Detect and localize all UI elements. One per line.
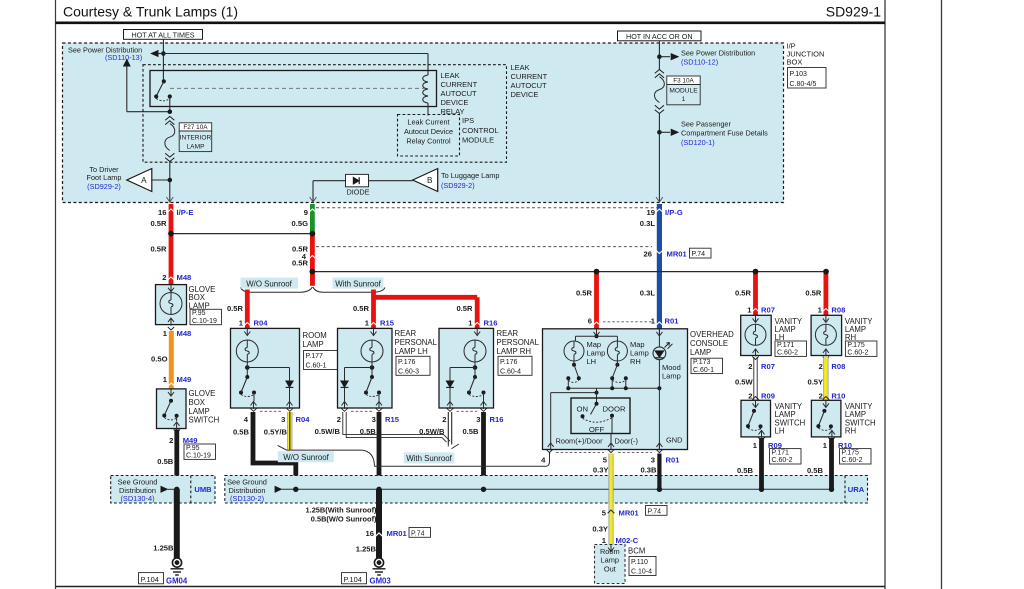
- svg-text:0.5W: 0.5W: [735, 378, 754, 387]
- svg-text:LAMP: LAMP: [189, 407, 210, 416]
- svg-text:0.5B: 0.5B: [233, 428, 250, 437]
- svg-text:LAMP: LAMP: [187, 143, 206, 150]
- svg-text:R04: R04: [296, 415, 311, 424]
- svg-text:R16: R16: [484, 318, 498, 327]
- svg-text:CONSOLE: CONSOLE: [690, 339, 728, 348]
- svg-text:P.103: P.103: [790, 71, 807, 78]
- svg-text:P.175: P.175: [847, 342, 864, 349]
- svg-text:0.5R: 0.5R: [456, 304, 473, 313]
- svg-text:C.60-2: C.60-2: [847, 350, 868, 357]
- svg-text:C.80-4/5: C.80-4/5: [790, 81, 817, 88]
- svg-text:0.5Y: 0.5Y: [807, 378, 823, 387]
- svg-text:R01: R01: [666, 455, 681, 464]
- svg-text:C.60-2: C.60-2: [777, 350, 798, 357]
- svg-text:P.95: P.95: [192, 310, 206, 317]
- svg-text:MR01: MR01: [619, 508, 640, 517]
- svg-text:DEVICE: DEVICE: [441, 98, 469, 107]
- svg-text:16: 16: [366, 529, 374, 538]
- svg-text:R08: R08: [831, 305, 845, 314]
- svg-text:See Passenger: See Passenger: [681, 120, 731, 129]
- svg-text:C.10-19: C.10-19: [192, 318, 217, 325]
- svg-text:LAMP: LAMP: [303, 340, 324, 349]
- svg-text:1: 1: [682, 96, 686, 103]
- svg-text:LAMP LH: LAMP LH: [395, 347, 428, 356]
- svg-text:C.60-1: C.60-1: [306, 363, 327, 370]
- svg-text:Door(-): Door(-): [615, 437, 638, 446]
- svg-text:3: 3: [281, 415, 285, 424]
- svg-text:CONTROL: CONTROL: [462, 126, 499, 135]
- svg-text:R09: R09: [761, 392, 775, 401]
- svg-text:19: 19: [647, 208, 655, 217]
- svg-text:R16: R16: [490, 415, 504, 424]
- svg-text:P.110: P.110: [631, 559, 648, 566]
- svg-text:P.173: P.173: [693, 359, 710, 366]
- svg-text:0.5R: 0.5R: [150, 219, 167, 228]
- svg-text:DEVICE: DEVICE: [511, 90, 539, 99]
- svg-text:(SD110-12): (SD110-12): [681, 57, 718, 66]
- svg-text:ON: ON: [577, 404, 589, 413]
- svg-text:PERSONAL: PERSONAL: [395, 338, 438, 347]
- svg-text:2: 2: [748, 392, 752, 401]
- svg-text:C.10-19: C.10-19: [186, 453, 211, 460]
- svg-text:GM03: GM03: [370, 577, 392, 586]
- svg-text:0.3L: 0.3L: [640, 289, 656, 298]
- svg-text:(SD130-2): (SD130-2): [230, 494, 264, 503]
- svg-text:W/O Sunroof: W/O Sunroof: [246, 279, 292, 288]
- svg-text:C.60-4: C.60-4: [500, 369, 521, 376]
- svg-text:UMB: UMB: [194, 485, 212, 494]
- svg-text:BOX: BOX: [189, 398, 206, 407]
- svg-text:P.171: P.171: [777, 342, 794, 349]
- svg-text:Out: Out: [604, 564, 616, 573]
- svg-text:3: 3: [476, 415, 480, 424]
- svg-text:0.5R: 0.5R: [292, 258, 309, 267]
- svg-text:(SD130-4): (SD130-4): [120, 494, 154, 503]
- svg-text:F3 10A: F3 10A: [673, 78, 694, 85]
- svg-text:9: 9: [304, 208, 308, 217]
- svg-text:(SD929-2): (SD929-2): [87, 182, 121, 191]
- svg-text:CURRENT: CURRENT: [511, 72, 548, 81]
- svg-text:0.5R: 0.5R: [735, 289, 752, 298]
- svg-text:(SD929-2): (SD929-2): [441, 181, 475, 190]
- svg-text:0.5Y/B: 0.5Y/B: [264, 428, 288, 437]
- svg-text:2: 2: [819, 362, 823, 371]
- svg-text:3: 3: [372, 415, 376, 424]
- svg-text:C.10-4: C.10-4: [631, 569, 652, 576]
- svg-text:Foot Lamp: Foot Lamp: [87, 173, 122, 182]
- svg-text:AUTOCUT: AUTOCUT: [511, 81, 548, 90]
- svg-text:AUTOCUT: AUTOCUT: [441, 89, 478, 98]
- svg-text:2: 2: [169, 436, 173, 445]
- svg-text:LH: LH: [587, 357, 597, 366]
- svg-text:R08: R08: [831, 362, 845, 371]
- svg-text:OVERHEAD: OVERHEAD: [690, 330, 734, 339]
- svg-text:P.176: P.176: [398, 359, 415, 366]
- svg-text:I/P-E: I/P-E: [177, 208, 194, 217]
- svg-text:HOT IN ACC OR ON: HOT IN ACC OR ON: [626, 32, 693, 41]
- svg-text:M49: M49: [177, 375, 192, 384]
- svg-text:(SD120-1): (SD120-1): [681, 138, 715, 147]
- svg-text:C.60-2: C.60-2: [772, 457, 793, 464]
- svg-text:P.74: P.74: [648, 509, 662, 516]
- svg-text:0.5O: 0.5O: [151, 355, 168, 364]
- svg-text:GM04: GM04: [166, 577, 188, 586]
- svg-text:P.176: P.176: [500, 359, 517, 366]
- svg-text:R01: R01: [665, 317, 680, 326]
- svg-text:0.5G: 0.5G: [292, 219, 309, 228]
- svg-text:PERSONAL: PERSONAL: [497, 338, 540, 347]
- svg-text:A: A: [141, 176, 147, 185]
- svg-text:R10: R10: [831, 392, 845, 401]
- svg-text:2: 2: [162, 273, 166, 282]
- svg-text:C.60-2: C.60-2: [842, 457, 863, 464]
- svg-text:HOT AT ALL TIMES: HOT AT ALL TIMES: [131, 30, 194, 39]
- svg-text:Lamp: Lamp: [662, 371, 681, 380]
- svg-text:CURRENT: CURRENT: [441, 80, 478, 89]
- svg-text:0.5W/B: 0.5W/B: [315, 427, 341, 436]
- svg-text:ROOM: ROOM: [303, 331, 327, 340]
- svg-text:0.5R: 0.5R: [227, 304, 244, 313]
- svg-text:2: 2: [337, 415, 341, 424]
- svg-text:0.3B: 0.3B: [640, 465, 657, 474]
- svg-text:With Sunroof: With Sunroof: [406, 454, 452, 463]
- svg-text:0.5R: 0.5R: [805, 289, 822, 298]
- svg-text:LEAK: LEAK: [511, 63, 530, 72]
- svg-text:0.5R: 0.5R: [576, 289, 593, 298]
- svg-text:1.25B(With Sunroof): 1.25B(With Sunroof): [306, 506, 378, 515]
- svg-text:MODULE: MODULE: [462, 135, 494, 144]
- svg-text:Relay Control: Relay Control: [406, 137, 451, 146]
- svg-text:Courtesy & Trunk Lamps (1): Courtesy & Trunk Lamps (1): [63, 4, 238, 20]
- svg-text:With Sunroof: With Sunroof: [335, 279, 381, 288]
- svg-text:LAMP: LAMP: [690, 348, 711, 357]
- svg-text:MODULE: MODULE: [669, 87, 698, 94]
- svg-text:(SD110-13): (SD110-13): [105, 53, 142, 62]
- svg-text:OFF: OFF: [589, 425, 605, 434]
- svg-text:2: 2: [819, 392, 823, 401]
- svg-text:0.3L: 0.3L: [640, 219, 656, 228]
- svg-text:F27 10A: F27 10A: [183, 124, 208, 131]
- svg-text:See Power Distribution: See Power Distribution: [681, 48, 755, 57]
- svg-text:MR01: MR01: [667, 249, 688, 258]
- svg-text:0.5B: 0.5B: [157, 457, 174, 466]
- svg-text:Room: Room: [600, 547, 620, 556]
- svg-text:REAR: REAR: [497, 329, 519, 338]
- svg-text:SD929-1: SD929-1: [826, 4, 881, 20]
- svg-text:To Luggage Lamp: To Luggage Lamp: [441, 171, 499, 180]
- svg-text:26: 26: [644, 249, 652, 258]
- svg-text:DIODE: DIODE: [346, 188, 369, 197]
- svg-text:0.5B: 0.5B: [737, 466, 754, 475]
- svg-text:0.5R: 0.5R: [353, 304, 370, 313]
- svg-text:0.5B: 0.5B: [462, 427, 479, 436]
- svg-text:Compartment Fuse Details: Compartment Fuse Details: [681, 129, 768, 138]
- svg-text:P.177: P.177: [306, 353, 323, 360]
- svg-text:0.5B(W/O Sunroof): 0.5B(W/O Sunroof): [311, 514, 377, 523]
- svg-text:R15: R15: [380, 318, 395, 327]
- svg-text:P.74: P.74: [692, 251, 706, 258]
- svg-text:P.171: P.171: [772, 450, 789, 457]
- svg-text:DOOR: DOOR: [603, 404, 627, 413]
- svg-text:M48: M48: [177, 273, 192, 282]
- svg-text:GLOVE: GLOVE: [189, 389, 216, 398]
- svg-text:LEAK: LEAK: [441, 71, 460, 80]
- svg-text:R15: R15: [385, 415, 400, 424]
- svg-text:2: 2: [442, 415, 446, 424]
- svg-text:RH: RH: [845, 427, 856, 436]
- svg-text:0.3Y: 0.3Y: [592, 525, 608, 534]
- svg-text:P.175: P.175: [842, 450, 859, 457]
- svg-text:M02-C: M02-C: [616, 536, 639, 545]
- svg-text:MR01: MR01: [387, 529, 408, 538]
- svg-text:C.60-3: C.60-3: [398, 369, 419, 376]
- svg-text:Room(+)/Door: Room(+)/Door: [556, 437, 604, 446]
- svg-text:P.95: P.95: [186, 445, 200, 452]
- svg-text:LH: LH: [775, 427, 785, 436]
- svg-text:REAR: REAR: [395, 329, 417, 338]
- svg-text:W/O Sunroof: W/O Sunroof: [283, 453, 329, 462]
- svg-text:URA: URA: [848, 485, 865, 494]
- svg-text:IPS: IPS: [462, 116, 474, 125]
- svg-text:Leak Current: Leak Current: [407, 117, 449, 126]
- svg-text:M48: M48: [177, 329, 192, 338]
- svg-text:Lamp: Lamp: [601, 556, 620, 565]
- svg-text:0.5B: 0.5B: [807, 466, 824, 475]
- svg-text:P.104: P.104: [141, 575, 159, 584]
- svg-text:0.3Y: 0.3Y: [593, 465, 609, 474]
- svg-text:R04: R04: [254, 318, 269, 327]
- svg-text:16: 16: [158, 208, 166, 217]
- svg-text:6: 6: [588, 317, 592, 326]
- svg-text:P.104: P.104: [344, 575, 362, 584]
- svg-text:2: 2: [748, 362, 752, 371]
- svg-text:1.25B: 1.25B: [153, 543, 174, 552]
- svg-text:INTERIOR: INTERIOR: [180, 135, 212, 142]
- svg-text:Autocut Device: Autocut Device: [404, 127, 453, 136]
- svg-text:SWITCH: SWITCH: [189, 416, 220, 425]
- svg-text:B: B: [427, 176, 433, 185]
- svg-text:LAMP RH: LAMP RH: [497, 347, 532, 356]
- svg-text:0.5R: 0.5R: [292, 244, 309, 253]
- svg-text:3: 3: [651, 455, 655, 464]
- svg-text:C.60-1: C.60-1: [693, 367, 714, 374]
- svg-text:R07: R07: [761, 305, 775, 314]
- svg-text:1.25B: 1.25B: [356, 544, 377, 553]
- svg-text:R07: R07: [761, 362, 775, 371]
- svg-text:RH: RH: [630, 357, 641, 366]
- svg-text:BOX: BOX: [787, 58, 803, 67]
- svg-text:BCM: BCM: [628, 547, 645, 556]
- svg-text:I/P-G: I/P-G: [665, 208, 683, 217]
- svg-text:GND: GND: [666, 436, 682, 445]
- svg-text:0.5R: 0.5R: [150, 244, 167, 253]
- svg-text:P.74: P.74: [411, 531, 425, 538]
